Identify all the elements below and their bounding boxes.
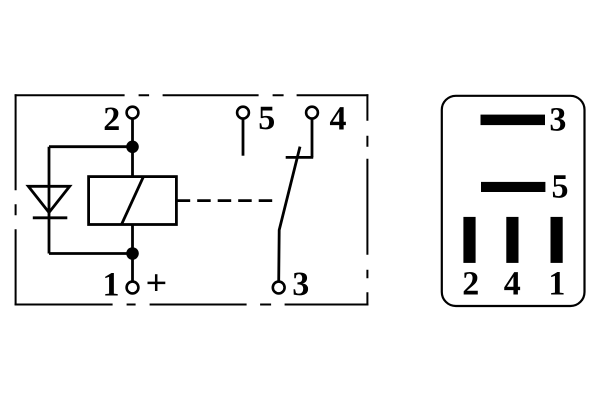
wire terminal 4 down [311,119,314,158]
terminal 3 circle [273,282,285,294]
svg-text:2: 2 [103,101,120,138]
svg-text:4: 4 [330,101,347,138]
plus sign polarity mark [148,274,166,291]
svg-text:2: 2 [462,266,479,303]
svg-text:1: 1 [548,266,565,303]
wire junction to coil top [131,147,134,177]
wire terminal 2 to junction [131,119,134,148]
dashed enclosure box left side [15,94,17,305]
connector pin 1 blade [551,217,563,263]
dashed enclosure box top side [15,94,369,96]
relay coil diagonal [122,177,144,225]
terminal 4 circle [306,107,318,119]
svg-text:3: 3 [549,101,566,138]
wire diode branch vertical [48,147,51,254]
relay coil K1 rectangle [89,177,177,225]
svg-text:3: 3 [292,266,309,303]
connector body outline [442,96,585,306]
switch blade [279,147,300,282]
svg-text:5: 5 [258,100,275,137]
wire terminal 5 stub [242,119,245,156]
wire diode branch top [49,145,133,148]
svg-text:5: 5 [552,169,569,206]
terminal 2 circle [127,107,139,119]
wire junction to terminal 1 [131,254,134,282]
connector pin 5 blade [481,182,545,192]
junction node bottom [126,247,139,260]
connector pin 4 blade [506,217,518,263]
wire diode branch bottom [49,252,133,255]
dashed enclosure box bottom side [15,304,369,306]
switch fixed contact line [286,156,314,159]
wire coil bottom to junction [131,224,134,253]
terminal 5 circle [237,107,249,119]
connector pin 2 blade [463,217,475,263]
dashed enclosure box right side [366,94,368,305]
diode V1 cathode bar [33,216,68,219]
junction node top [126,141,139,154]
svg-text:1: 1 [103,266,120,303]
mechanical linkage dashed line [177,199,275,202]
svg-text:4: 4 [504,266,521,303]
diode V1 triangle [28,186,69,212]
terminal 1 circle [127,282,139,294]
connector pin 3 blade [481,115,546,126]
